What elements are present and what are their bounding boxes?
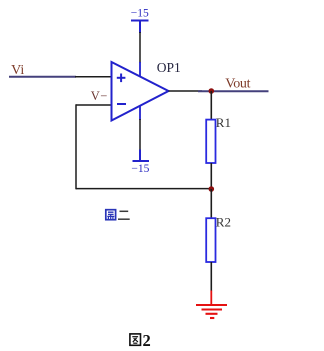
wire output black segment bbox=[169, 90, 203, 92]
pin top supply blue segment bbox=[139, 62, 141, 78]
wire bottom supply blue segment bbox=[139, 150, 141, 162]
svg-text:V−: V− bbox=[91, 89, 108, 103]
wire R2 to ground black segment bbox=[210, 262, 212, 291]
svg-text:−15: −15 bbox=[131, 163, 149, 175]
wire noninverting input black segment bbox=[75, 76, 112, 78]
wire inverting input stub bbox=[76, 104, 112, 106]
label 圖 (figure, blue glyph) bbox=[106, 210, 116, 220]
wire bottom supply black segment bbox=[139, 119, 141, 150]
resistor R2 bbox=[206, 218, 215, 262]
caption 图 (figure, black glyph) bbox=[130, 334, 141, 345]
power rail -15 bottom bar bbox=[133, 160, 150, 162]
pin bottom supply blue segment bbox=[139, 104, 141, 120]
svg-text:R2: R2 bbox=[216, 214, 231, 229]
op-amp U1 triangle bbox=[112, 62, 169, 121]
op-amp plus sign bbox=[117, 74, 126, 83]
ground bbox=[196, 305, 227, 318]
svg-text:Vout: Vout bbox=[225, 77, 250, 92]
wire Vout navy segment bbox=[198, 90, 269, 92]
wire output node to R1 bbox=[210, 91, 212, 120]
wire R2 to ground red segment bbox=[210, 291, 212, 306]
wire feedback node to R2 bbox=[210, 189, 212, 219]
node output junction dot bbox=[209, 88, 215, 94]
svg-text:2: 2 bbox=[143, 331, 151, 350]
node feedback junction dot bbox=[209, 186, 215, 192]
wire feedback horizontal bbox=[76, 188, 212, 190]
wire top supply black segment bbox=[139, 32, 141, 63]
resistor R1 bbox=[206, 120, 215, 163]
wire Vi input navy segment bbox=[9, 76, 76, 78]
op-amp minus sign bbox=[117, 103, 126, 105]
wire feedback vertical bbox=[75, 104, 77, 189]
wire R1 to feedback node bbox=[210, 163, 212, 189]
power rail -15 top bar bbox=[131, 20, 149, 22]
svg-text:OP1: OP1 bbox=[157, 60, 181, 75]
label 二 (two, dark strokes) bbox=[118, 211, 130, 219]
svg-text:−15: −15 bbox=[131, 7, 149, 19]
svg-text:R1: R1 bbox=[216, 115, 231, 130]
wire top supply blue segment bbox=[139, 21, 141, 34]
svg-text:Vi: Vi bbox=[11, 63, 24, 78]
